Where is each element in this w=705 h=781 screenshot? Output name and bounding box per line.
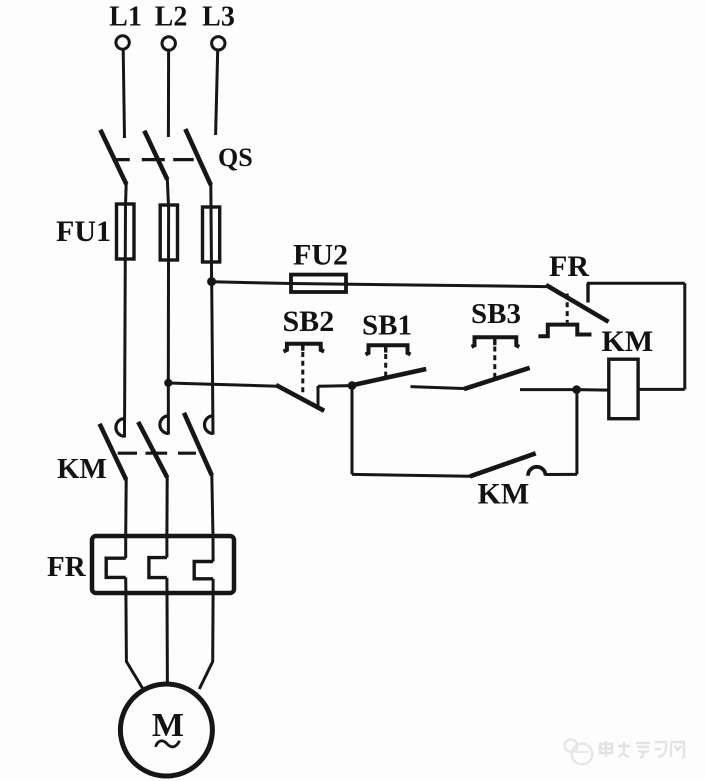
wire loop top: [587, 282, 685, 285]
KM linkage dashed: [118, 452, 197, 455]
svg-text:SB3: SB3: [471, 298, 521, 330]
switch QS blade pole2: [144, 131, 167, 180]
FR heater element 1: [124, 536, 127, 558]
motor tilde: [156, 741, 180, 747]
button SB1 cap: [366, 345, 411, 354]
fuse FU1 pole1: [117, 204, 135, 259]
button SB1 NO blade: [351, 369, 427, 386]
wire L3 to QS: [216, 50, 218, 135]
fuse FU1 pole2: [160, 205, 177, 260]
QS linkage dashed: [113, 158, 194, 161]
wire QS pole1 to FU1: [124, 183, 128, 206]
wire KM pole3 to FR box: [212, 474, 213, 537]
wire L1 to QS: [123, 50, 124, 139]
wire QS pole2 to FU1: [167, 178, 168, 207]
watermark text 电力学习网: [600, 741, 684, 758]
button SB3 NO blade: [464, 368, 530, 389]
coil KM: [609, 359, 638, 419]
svg-text:QS: QS: [218, 143, 253, 172]
wire latch right: [546, 473, 577, 476]
FR heater element 2: [165, 536, 168, 558]
motor M circle: [120, 684, 212, 776]
svg-text:SB1: SB1: [362, 310, 412, 342]
svg-text:SB2: SB2: [283, 305, 335, 338]
contact KM latch blade: [470, 453, 536, 476]
button SB2 right terminal riser: [317, 386, 320, 407]
button SB2 dashed plunger: [301, 352, 304, 393]
contactor KM pole1 blade: [100, 424, 127, 480]
svg-text:M: M: [152, 707, 184, 744]
svg-text:KM: KM: [57, 453, 107, 485]
contactor KM pole3 blade: [184, 413, 212, 476]
wire FR box to motor (phase3): [199, 593, 213, 689]
FR heater element 3: [212, 536, 215, 562]
wire SB2 to node A: [318, 384, 352, 388]
svg-text:FR: FR: [549, 250, 589, 283]
wire QS pole3 to FU1: [209, 183, 212, 209]
node junction L3/FU2: [207, 277, 216, 286]
wire loop bottom to coil: [638, 388, 685, 391]
terminal circle L1: [116, 36, 129, 49]
svg-text:L2: L2: [155, 2, 188, 33]
svg-text:L1: L1: [109, 2, 142, 33]
svg-text:FU2: FU2: [293, 239, 348, 272]
button SB2 cap: [284, 344, 325, 352]
wire node to coil: [577, 388, 609, 392]
contactor KM pole2 blade: [138, 422, 167, 478]
wire through fuse1: [123, 206, 127, 418]
switch QS blade pole1: [100, 130, 126, 185]
switch QS blade pole3: [185, 129, 211, 185]
FR right terminal stub: [586, 283, 589, 302]
wire KM pole2 to FR box: [165, 476, 168, 537]
relay contact FR (NC, control) blade: [546, 285, 609, 322]
wire latch right vertical: [575, 391, 578, 474]
wire L2 to QS: [167, 50, 170, 137]
wire through fuse3: [210, 209, 214, 282]
FR actuator dashed link: [566, 294, 569, 323]
node B: [572, 385, 581, 394]
FR thermal element mark: [538, 325, 591, 337]
wire through fuse2: [167, 207, 170, 384]
wire latch bottom: [352, 474, 471, 476]
svg-text:KM: KM: [478, 478, 530, 511]
watermark logo: [565, 739, 593, 764]
wire junction to FU2: [212, 282, 292, 284]
fuse FU2: [291, 275, 346, 292]
contactor KM pole3 hook: [205, 416, 214, 434]
contact KM latch fixed arc: [528, 467, 546, 476]
wire latch left vertical: [351, 386, 354, 475]
svg-text:KM: KM: [602, 325, 654, 358]
button SB3 dashed plunger: [493, 347, 496, 381]
terminal circle L3: [212, 37, 225, 50]
terminal circle L2: [162, 37, 175, 50]
contactor KM pole2 hook: [160, 416, 169, 434]
button SB1 dashed plunger: [384, 354, 387, 379]
wire loop right vertical: [683, 283, 686, 389]
svg-text:FU1: FU1: [56, 215, 111, 248]
thermal relay FR box: [92, 536, 234, 593]
contactor KM pole1 hook: [116, 419, 125, 437]
wire KM pole1 to FR box: [124, 479, 128, 537]
wire rail to SB2: [168, 383, 277, 386]
wire control rail from L2 tap: [164, 379, 172, 387]
button SB2 NC blade: [276, 385, 324, 411]
svg-text:L3: L3: [202, 2, 235, 33]
svg-text:FR: FR: [47, 551, 87, 583]
node A: [348, 381, 357, 390]
wire FR box to motor (phase2): [166, 593, 169, 684]
wire FR box to motor (phase1): [126, 593, 143, 690]
fuse FU1 pole3: [203, 207, 220, 262]
wire SB3 to node B: [520, 388, 577, 391]
button SB3 cap: [472, 337, 520, 347]
wire FU2 to FR: [291, 284, 547, 287]
wire SB1 to SB3: [411, 387, 467, 389]
